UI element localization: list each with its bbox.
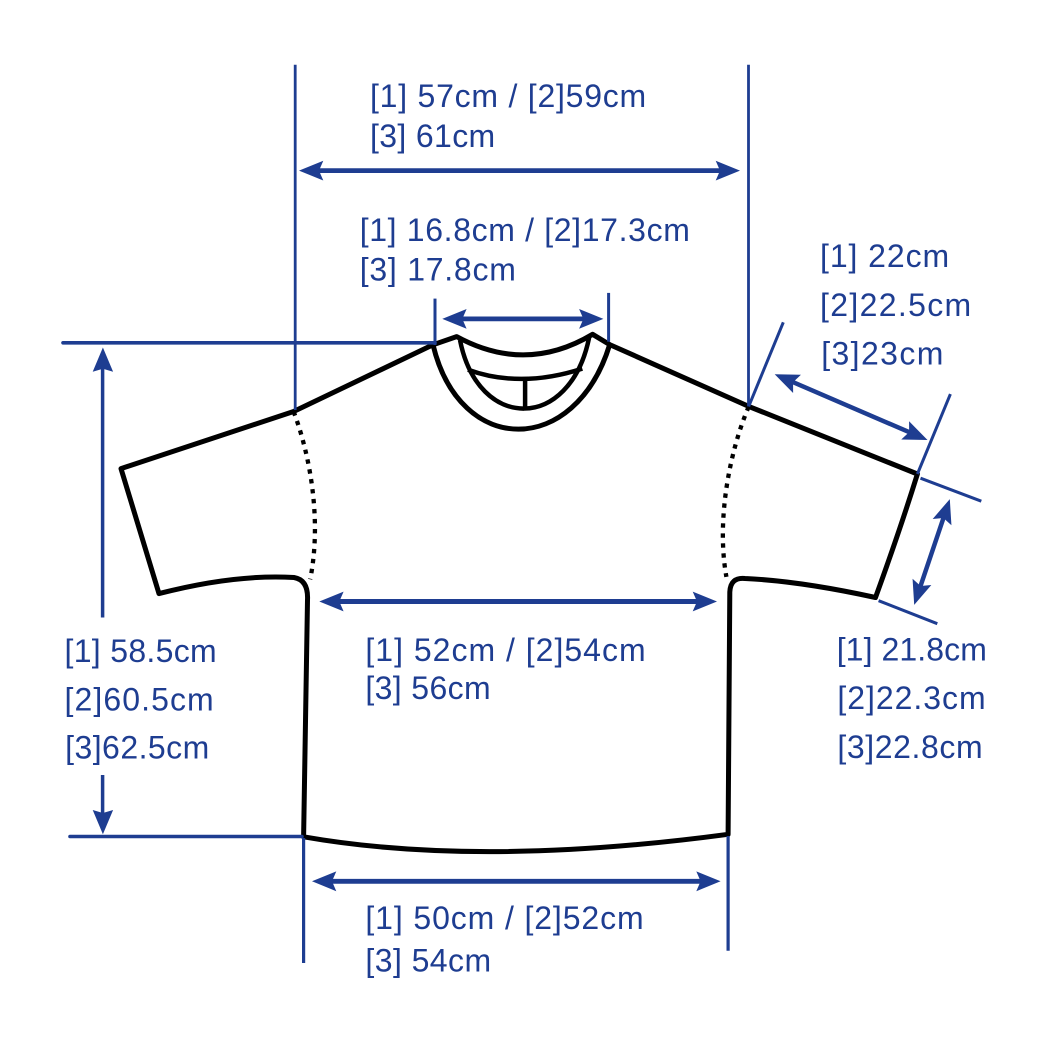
svg-text:[1] 50cm / [2]52cm: [1] 50cm / [2]52cm [365, 900, 643, 936]
svg-text:[3]23cm: [3]23cm [821, 336, 943, 372]
svg-text:[3]62.5cm: [3]62.5cm [65, 730, 209, 766]
svg-text:[1] 21.8cm: [1] 21.8cm [837, 632, 987, 668]
svg-text:[3] 56cm: [3] 56cm [365, 670, 490, 706]
svg-text:[3] 61cm: [3] 61cm [370, 118, 495, 154]
svg-text:[1] 22cm: [1] 22cm [820, 238, 949, 274]
svg-text:[3] 54cm: [3] 54cm [365, 942, 491, 978]
svg-text:[1] 57cm / [2]59cm: [1] 57cm / [2]59cm [370, 78, 646, 114]
svg-text:[3] 17.8cm: [3] 17.8cm [360, 251, 516, 287]
svg-text:[2]60.5cm: [2]60.5cm [65, 682, 214, 718]
svg-text:[2]22.3cm: [2]22.3cm [837, 680, 985, 716]
svg-text:[1] 58.5cm: [1] 58.5cm [65, 633, 217, 669]
svg-text:[3]22.8cm: [3]22.8cm [837, 729, 982, 765]
svg-text:[1] 52cm / [2]54cm: [1] 52cm / [2]54cm [365, 632, 645, 668]
svg-text:[1] 16.8cm / [2]17.3cm: [1] 16.8cm / [2]17.3cm [360, 212, 690, 248]
svg-text:[2]22.5cm: [2]22.5cm [820, 287, 971, 323]
